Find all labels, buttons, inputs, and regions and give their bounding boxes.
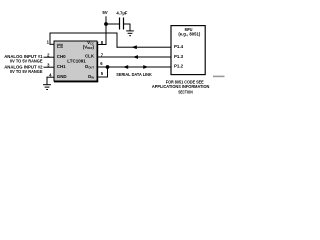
ground symbol at IC GND pin	[43, 84, 51, 90]
IC U1 pin label CS (pin 1, with overline)	[57, 44, 63, 49]
svg-text:4: 4	[49, 72, 52, 77]
junction node DOUT/DIN tie	[106, 65, 110, 69]
wire 5V supply down to pin 8 (VCC)	[97, 16, 107, 45]
junction node 5V / capacitor	[104, 22, 108, 26]
wire DIN pin 5 up to DOUT junction	[97, 67, 108, 78]
wire CS loop from pin 1 up over the IC to MPU P1.4	[50, 33, 171, 48]
svg-text:2: 2	[47, 52, 50, 57]
IC U1 LTC1091 body	[54, 41, 98, 82]
arrowhead on data wire pointing left toward IC	[123, 65, 128, 69]
svg-text:CH1: CH1	[57, 64, 66, 69]
label ANALOG INPUT #1 0V TO 5V RANGE	[4, 54, 43, 64]
wire pin 4 (GND) to ground	[47, 77, 55, 85]
capacitor C1 bypass	[106, 18, 131, 31]
svg-text:CH0: CH0	[57, 54, 66, 59]
wire DOUT pin 6 to MPU P1.2	[97, 67, 171, 68]
label ANALOG INPUT #2 0V TO 5V RANGE	[4, 64, 43, 74]
svg-text:GND: GND	[57, 74, 67, 79]
ground symbol at capacitor	[126, 30, 134, 36]
svg-text:1: 1	[47, 40, 50, 45]
svg-text:SECTION: SECTION	[178, 89, 193, 94]
svg-text:4.7µF: 4.7µF	[116, 10, 127, 15]
svg-text:P1.4: P1.4	[174, 44, 184, 49]
MPU box (e.g. 8051)	[171, 26, 205, 75]
svg-text:3: 3	[47, 62, 50, 67]
svg-text:5: 5	[101, 71, 104, 76]
svg-text:CS: CS	[57, 44, 63, 49]
svg-text:CLK: CLK	[85, 53, 95, 58]
svg-text:SERIAL DATA LINK: SERIAL DATA LINK	[116, 72, 152, 77]
svg-text:6: 6	[100, 61, 103, 66]
svg-text:0V TO 5V RANGE: 0V TO 5V RANGE	[10, 69, 43, 74]
wire analog input 2 to pin 3 (CH1)	[44, 67, 55, 68]
svg-text:P1.3: P1.3	[174, 54, 184, 59]
arrowhead on CLK wire pointing left toward IC	[133, 55, 138, 59]
wire analog input 1 to pin 2 (CH0)	[44, 57, 55, 58]
gray dash mark right of MPU	[213, 76, 225, 78]
svg-text:P1.2: P1.2	[174, 64, 184, 69]
svg-text:5V: 5V	[102, 10, 107, 15]
svg-text:LTC1091: LTC1091	[67, 58, 86, 63]
wire CLK pin 7 to MPU P1.3	[97, 57, 171, 58]
svg-text:0V TO 5V RANGE: 0V TO 5V RANGE	[10, 59, 43, 64]
arrowhead on data wire pointing right toward MPU	[143, 65, 148, 69]
svg-text:(e.g., 8051): (e.g., 8051)	[178, 32, 201, 37]
arrowhead on CS wire pointing left toward IC	[132, 45, 137, 49]
